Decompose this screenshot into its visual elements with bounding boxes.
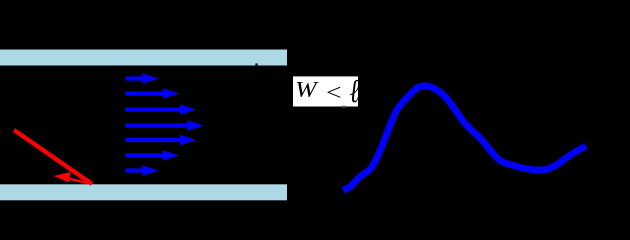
velocity arrow v3 [126, 104, 197, 114]
bottom channel wall [0, 184, 287, 200]
distribution curve [343, 86, 586, 190]
velocity arrow v6 [126, 150, 180, 160]
svg-text:W: W [295, 77, 318, 102]
speck on top wall [255, 63, 258, 65]
red incoming trajectory [14, 130, 92, 184]
svg-text:<: < [324, 80, 343, 106]
velocity arrow v2 [126, 88, 180, 98]
red backscattered arrow [54, 172, 92, 184]
velocity arrow v1 [126, 73, 159, 83]
velocity arrow v5 [126, 135, 197, 145]
velocity arrow v7 [126, 165, 159, 175]
label box [293, 76, 358, 106]
svg-text:ℓ: ℓ [350, 73, 360, 110]
top channel wall [0, 50, 287, 66]
velocity arrow v4 [126, 120, 204, 130]
speck under box [342, 106, 346, 108]
